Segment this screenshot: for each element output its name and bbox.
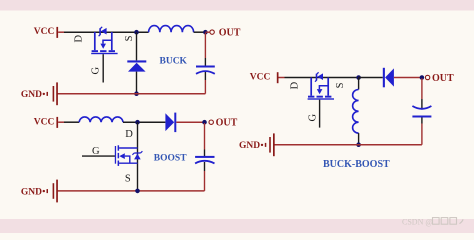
wire VCC to switch node (BUCK top rail) <box>64 31 149 33</box>
inductor L2 (BOOST) <box>79 117 123 122</box>
diode D2 (BOOST) <box>165 113 176 133</box>
wire inductor to rail (BUCK-BOOST) <box>358 133 360 145</box>
svg-text:OUT: OUT <box>432 73 454 84</box>
port OUT (BUCK) <box>205 28 240 39</box>
svg-text:OUT: OUT <box>219 28 241 39</box>
wire switch node to diode (BUCK-BOOST) <box>359 77 383 79</box>
svg-text:D: D <box>125 129 133 140</box>
svg-text:BUCK-BOOST: BUCK-BOOST <box>323 159 390 170</box>
svg-text:S: S <box>335 82 346 88</box>
svg-text:CSDN @: CSDN @ <box>402 218 433 227</box>
svg-text:OUT: OUT <box>216 118 238 129</box>
diode D3 (BUCK-BOOST) <box>383 68 394 88</box>
wire inductor to switch node and diode (BOOST) <box>123 121 165 123</box>
power port VCC (BUCK-BOOST) <box>250 72 279 83</box>
power port GND (BUCK) <box>21 82 58 105</box>
wire VCC stub (BUCK-BOOST) <box>279 77 285 79</box>
wire gate (BOOST) <box>82 155 115 157</box>
node OUT junction (BUCK-BOOST) <box>420 75 425 80</box>
svg-text:G: G <box>91 66 102 74</box>
pin G line (Q1) <box>102 54 104 82</box>
diode D1 freewheel (BUCK) <box>127 60 146 71</box>
node switch junction (BUCK) <box>134 30 139 35</box>
wire capacitor to rail (BUCK-BOOST) <box>421 118 423 124</box>
wire inductor to out node (BUCK) <box>194 31 206 33</box>
wire VCC to switch node (BUCK-BOOST) <box>285 77 359 79</box>
node ground rail junction (BUCK) <box>134 91 139 96</box>
wire diode branch upper (BUCK) <box>136 32 138 60</box>
inductor L3 vertical (BUCK-BOOST) <box>353 90 359 134</box>
wire OUT node to capacitor (BOOST) <box>204 123 206 150</box>
wire VCC stub (BUCK) <box>58 31 64 33</box>
transistor Q1 P-MOSFET (BUCK) <box>91 27 117 54</box>
node ground rail junction (BOOST) <box>135 189 140 194</box>
node switch junction (BUCK-BOOST) <box>356 75 361 80</box>
node OUT junction (BOOST) <box>202 120 207 125</box>
svg-text:D: D <box>74 34 85 42</box>
transistor Q2 N-MOSFET (BOOST) <box>115 145 143 166</box>
wire OUT node down to capacitor (BUCK) <box>204 33 206 58</box>
wire diode to OUT (BOOST) <box>176 121 204 123</box>
power port VCC (BOOST) <box>34 117 58 128</box>
watermark CSDN <box>402 218 463 227</box>
power port VCC (BUCK) <box>34 27 58 38</box>
svg-text:GND: GND <box>21 90 42 100</box>
node inductor rail junction (BUCK-BOOST) <box>356 142 361 147</box>
wire capacitor to rail (BOOST) <box>204 162 206 171</box>
wire diode branch lower (BUCK) <box>136 72 138 94</box>
svg-text:G: G <box>307 113 318 121</box>
wire diode to OUT (BUCK-BOOST) <box>394 77 422 79</box>
wire switch node to inductor (BUCK-BOOST) <box>358 78 360 90</box>
wire VCC to inductor (BOOST) <box>64 121 79 123</box>
node switch junction (BOOST) <box>135 120 140 125</box>
inductor L1 (BUCK) <box>149 26 194 33</box>
port OUT (BUCK-BOOST) <box>425 73 454 84</box>
wire capacitor to rail (BUCK) <box>204 72 206 80</box>
svg-text:GND: GND <box>21 187 42 197</box>
svg-text:D: D <box>290 81 301 89</box>
power port GND (BUCK-BOOST) <box>239 133 275 156</box>
pin G line (Q3) <box>319 100 321 128</box>
wire OUT node to capacitor (BUCK-BOOST) <box>421 78 423 99</box>
capacitor C1 (BUCK) <box>196 66 215 74</box>
wire drain-source vertical (BOOST) <box>137 122 139 191</box>
svg-text:S: S <box>125 174 131 185</box>
svg-text:BUCK: BUCK <box>160 56 188 66</box>
wire VCC stub (BOOST) <box>58 121 64 123</box>
wire ground rail (BOOST) <box>57 190 205 192</box>
capacitor C3 (BUCK-BOOST) <box>412 106 431 118</box>
svg-text:VCC: VCC <box>250 73 271 83</box>
svg-text:S: S <box>124 35 135 41</box>
capacitor C2 (BOOST) <box>195 156 214 164</box>
svg-text:VCC: VCC <box>34 117 55 127</box>
svg-text:G: G <box>92 146 100 157</box>
svg-text:GND: GND <box>239 141 260 151</box>
power port GND (BOOST) <box>21 180 58 203</box>
wire ground rail (BUCK-BOOST) <box>274 144 422 146</box>
svg-text:VCC: VCC <box>34 27 55 37</box>
port OUT (BOOST) <box>209 118 238 129</box>
node OUT junction (BUCK) <box>203 30 208 35</box>
svg-text:BOOST: BOOST <box>154 153 187 163</box>
transistor Q3 P-MOSFET (BUCK-BOOST) <box>308 72 334 99</box>
wire ground rail (BUCK) <box>57 93 205 95</box>
